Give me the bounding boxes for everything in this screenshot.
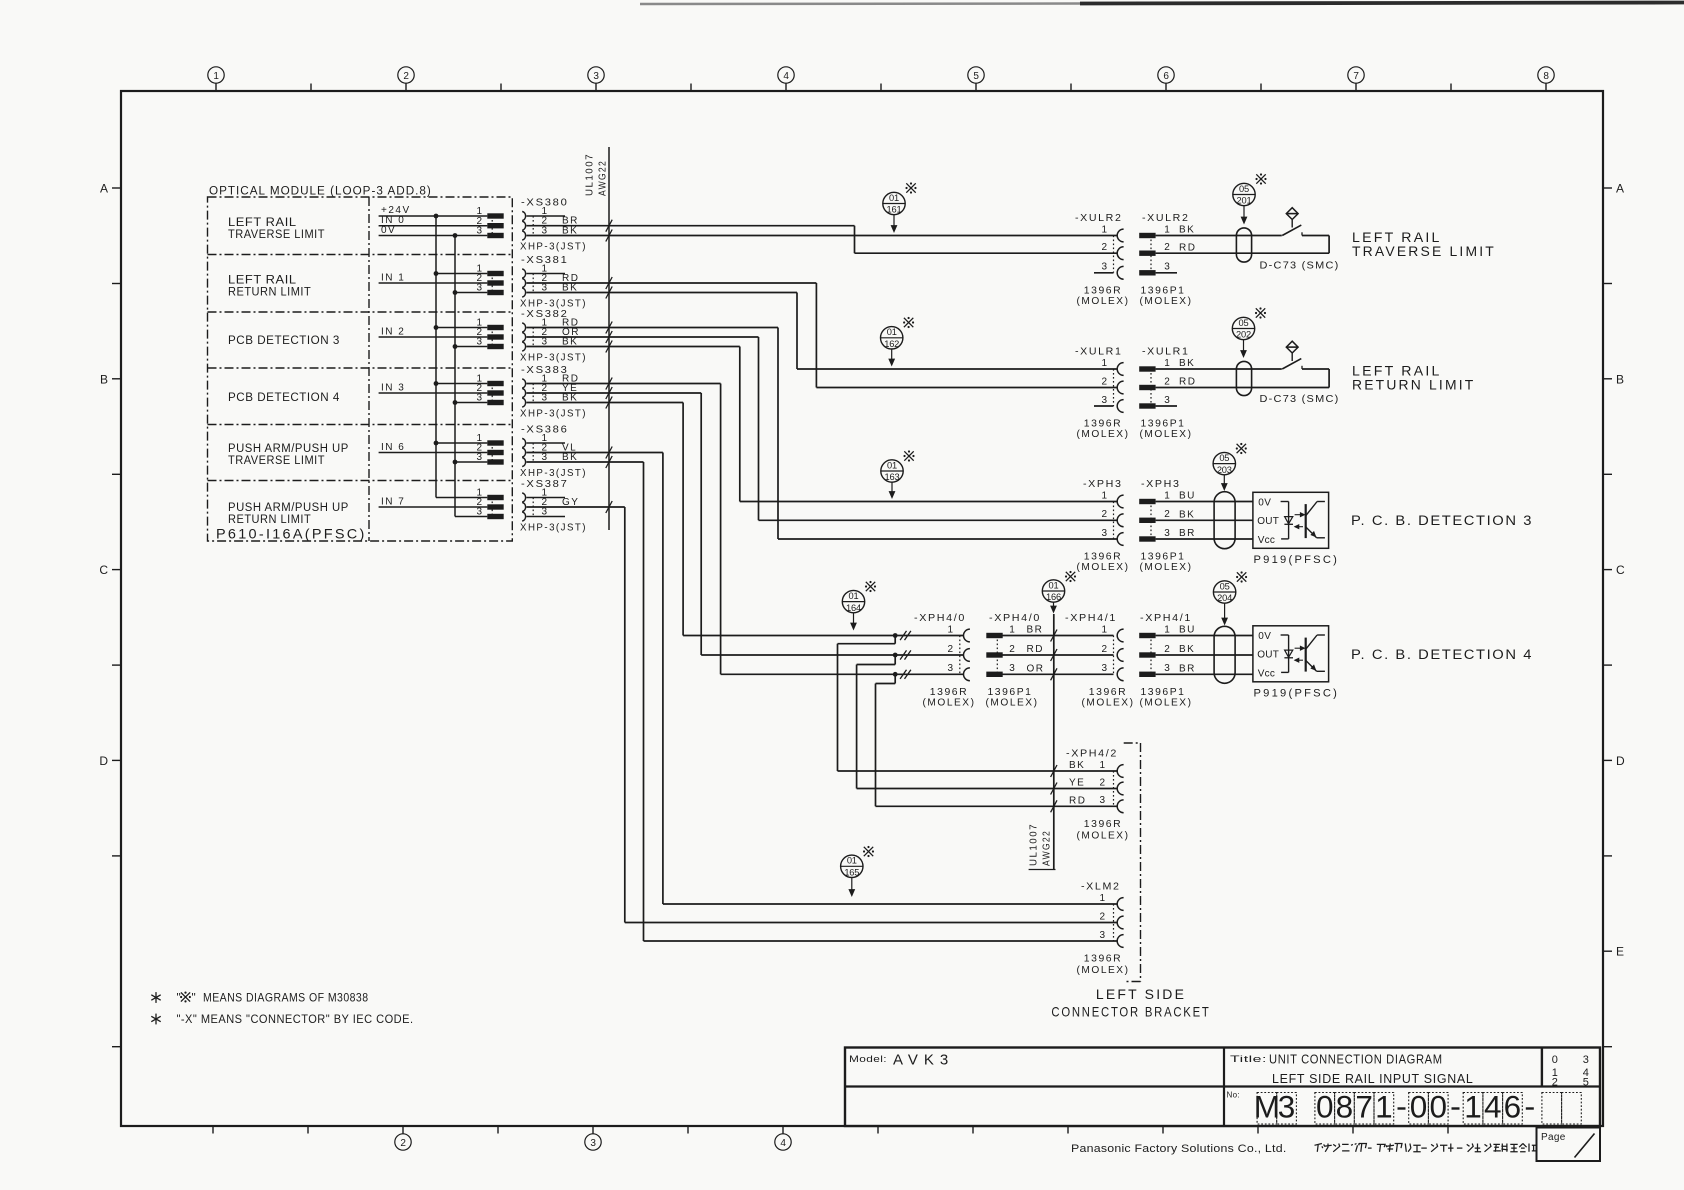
svg-text:3: 3 [1583,1054,1589,1066]
svg-text:LEFT SIDE: LEFT SIDE [1096,986,1186,1002]
svg-text:0V: 0V [1258,631,1271,642]
svg-text:BU: BU [1179,491,1196,502]
svg-text:1: 1 [1101,224,1107,235]
module section label PCB DETECTION 4 [228,390,340,404]
scan artifact line top edge [640,3,1684,5]
svg-text:201: 201 [1237,196,1252,206]
svg-text:2: 2 [1099,777,1105,788]
svg-text:-XPH4/1: -XPH4/1 [1065,612,1117,624]
svg-text:IN 2: IN 2 [381,326,405,337]
svg-text:(MOLEX): (MOLEX) [1140,562,1193,573]
reference circle 01/161 [883,192,905,232]
svg-text:": " [192,991,197,1005]
model field AVK3 [849,1052,954,1069]
svg-text:RD: RD [1069,796,1086,807]
svg-text:05: 05 [1219,453,1229,463]
company name japanese [1315,1144,1536,1152]
connector -XS386 XHP-3(JST) [476,424,587,480]
svg-text:3: 3 [541,506,547,517]
drawing number field [1227,1091,1240,1100]
reference circle 05/203 [1213,452,1235,490]
svg-text:01: 01 [887,327,897,337]
svg-text:05: 05 [1239,318,1249,328]
svg-text:05: 05 [1220,581,1230,591]
svg-text:(MOLEX): (MOLEX) [1077,562,1130,573]
svg-text:Page: Page [1541,1132,1566,1143]
svg-text:164: 164 [846,603,861,613]
svg-text:1: 1 [1464,1089,1482,1125]
svg-text:203: 203 [1217,465,1232,475]
reference circle 01/163 [881,460,903,498]
svg-text:P. C. B. DETECTION 4: P. C. B. DETECTION 4 [1351,647,1533,662]
svg-text:XHP-3(JST): XHP-3(JST) [520,242,587,253]
cable oval XPH3 [1214,492,1235,549]
wire XPH4/2-3 RD loop to XPH4/0-3 [876,674,1118,812]
svg-text:(MOLEX): (MOLEX) [986,697,1039,708]
stub XS381 pin1 [527,273,566,275]
svg-text:Panasonic Factory Solutions Co: Panasonic Factory Solutions Co., Ltd. [1071,1143,1287,1155]
svg-text:3: 3 [1099,795,1105,806]
connector -XULR2 1396P1 (MOLEX) [1139,212,1196,307]
svg-text:D: D [1616,754,1625,768]
svg-text:8: 8 [1543,71,1549,82]
pin1 feed wire XS386 [436,442,487,444]
svg-text:1: 1 [1099,760,1105,771]
junction dots XPH4/0 pins [893,633,898,677]
reference circle 05/202 [1232,317,1254,357]
reference mark for 05/202 [1255,307,1266,318]
dash separator 2 [1452,1107,1460,1109]
svg-text:RD: RD [1179,377,1196,388]
reference circle 05/204 [1213,581,1235,625]
label LEFT SIDE CONNECTOR BRACKET [1051,986,1210,1020]
wire XS383-3 BK to XPH4/0-1 [527,397,964,636]
svg-text:RD: RD [1027,644,1044,655]
connector -XULR1 1396P1 (MOLEX) [1139,346,1196,440]
svg-text:3: 3 [476,393,482,404]
svg-text:3: 3 [476,452,482,463]
bus +24V vertical [435,216,437,498]
svg-text:BK: BK [1179,225,1195,236]
svg-text:PCB DETECTION 4: PCB DETECTION 4 [228,390,340,404]
svg-text:PCB DETECTION 3: PCB DETECTION 3 [228,333,340,347]
svg-text:165: 165 [844,868,859,878]
svg-text:-XPH3: -XPH3 [1141,478,1181,490]
svg-text:P. C. B. DETECTION 3: P. C. B. DETECTION 3 [1351,513,1533,528]
svg-text:0: 0 [1552,1054,1558,1066]
wire XS383-2 YE to XPH4/0-2 [527,387,964,655]
svg-text:AWG22: AWG22 [1042,830,1053,866]
drawing number 00 [1409,1089,1448,1125]
svg-text:E: E [1616,945,1624,959]
drawing number 146 [1463,1089,1522,1125]
svg-text:3: 3 [476,283,482,294]
connector -XULR2 1396R (MOLEX) [1075,212,1130,307]
cable oval XULR1 [1236,361,1251,395]
svg-text:05: 05 [1239,184,1249,194]
svg-text:3: 3 [1164,663,1170,674]
svg-text:BR: BR [1179,528,1196,539]
section title LEFT RAIL RETURN LIMIT [1352,363,1475,393]
svg-text:2: 2 [1164,376,1170,387]
svg-text:3: 3 [1101,528,1107,539]
svg-text:204: 204 [1217,593,1232,603]
reference mark for 01/161 [905,182,916,193]
svg-text:3: 3 [1101,663,1107,674]
svg-text:3: 3 [476,226,482,237]
pin3 feed wire XS386 [455,461,487,463]
pin1 feed wire XS381 [436,273,487,275]
stub XS380 pin1 [527,215,566,217]
wire XS380-3 BK to XULR2-1 [527,230,1118,242]
svg-text:-XULR1: -XULR1 [1075,346,1123,358]
company name [1071,1143,1287,1155]
svg-text:1: 1 [1164,224,1170,235]
svg-text:162: 162 [884,339,899,349]
connector -XPH4/2 1396R (MOLEX) [1066,748,1130,842]
connector -XULR1 1396R (MOLEX) [1075,346,1130,440]
stub XS387 pin1 [527,497,566,499]
svg-text:2: 2 [403,71,409,82]
drawing frame border [121,91,1603,1126]
svg-text:3: 3 [1101,262,1107,273]
reference mark for 01/162 [903,317,914,328]
svg-text:A: A [100,182,108,196]
svg-text:-XPH4/0: -XPH4/0 [989,612,1041,624]
wire XS382-3 BK to XPH3-1 [527,341,1118,502]
svg-text:5: 5 [973,71,979,82]
svg-text:2: 2 [1101,644,1107,655]
svg-text:RETURN LIMIT: RETURN LIMIT [228,512,311,526]
svg-text:01: 01 [1049,580,1059,590]
stub XS387 pin3 [527,516,566,518]
svg-text:RETURN LIMIT: RETURN LIMIT [228,285,311,299]
svg-text:2: 2 [1101,376,1107,387]
reference circle 05/201 [1233,183,1255,223]
drawing number 0871 [1315,1089,1394,1125]
connector -XS383 XHP-3(JST) [476,364,587,420]
svg-text:XHP-3(JST): XHP-3(JST) [520,353,587,364]
svg-text:Vcc: Vcc [1258,668,1275,679]
optocoupler P919 PCB detection 3 [1253,492,1339,566]
svg-text:-XPH3: -XPH3 [1083,478,1123,490]
connector -XPH3 1396P1 (MOLEX) [1139,478,1196,573]
svg-text:3: 3 [1164,528,1170,539]
svg-text:1396R: 1396R [1084,419,1123,430]
svg-text:-XULR2: -XULR2 [1142,212,1190,224]
svg-text:3: 3 [1278,1089,1296,1125]
svg-text:1: 1 [213,71,219,82]
svg-text:3: 3 [947,663,953,674]
svg-text:01: 01 [849,591,859,601]
stub XS386 pin1 [527,442,566,444]
svg-text:-XPH4/1: -XPH4/1 [1140,612,1192,624]
svg-text:BR: BR [1179,664,1196,675]
section title P.C.B. DETECTION 4 [1351,647,1533,662]
optical module outline box [208,197,513,541]
connector -XPH4/0 1396R (MOLEX) [914,612,976,708]
svg-text:2: 2 [1009,644,1015,655]
svg-text:Title:: Title: [1230,1054,1267,1064]
connector -XPH4/1 1396R (MOLEX) [1065,612,1135,708]
svg-text:1: 1 [1164,358,1170,369]
svg-text:01: 01 [847,856,857,866]
svg-text:IN 7: IN 7 [381,496,405,507]
reference mark for 05/203 [1236,443,1247,454]
svg-text:C: C [99,563,108,577]
svg-text:A: A [1616,182,1624,196]
twisted pair marks XPH4/0 [900,631,911,679]
revision digits box [1552,1054,1589,1088]
svg-text:LEFT SIDE RAIL INPUT SIGNAL: LEFT SIDE RAIL INPUT SIGNAL [1272,1072,1474,1086]
svg-text:4: 4 [1484,1089,1502,1125]
pin3 feed wire XS383 [455,402,487,404]
row reference letters right [1603,182,1625,1047]
signal IN 6 [379,442,488,453]
svg-text:CONNECTOR BRACKET: CONNECTOR BRACKET [1051,1004,1210,1020]
svg-text:1: 1 [1164,490,1170,501]
svg-text:OUT: OUT [1257,650,1279,661]
svg-text:No:: No: [1227,1091,1240,1100]
svg-text:1: 1 [1009,624,1015,635]
limit switch D-C73 left rail traverse [1156,208,1340,272]
wire XS386-3 BK to XLM2-3 [527,456,1118,941]
svg-text:1396P1: 1396P1 [988,687,1033,698]
connector -XPH4/0 1396P1 (MOLEX) [986,612,1045,708]
svg-text:2: 2 [1101,242,1107,253]
optical module title [209,184,432,198]
cable UL1007 AWG22 marker line 2 [1029,614,1056,870]
svg-text:XHP-3(JST): XHP-3(JST) [520,409,587,420]
wires XPH4/1 to sensor [1156,636,1253,675]
svg-text:1396P1: 1396P1 [1141,687,1186,698]
svg-text:1396R: 1396R [930,687,969,698]
reference mark for 01/164 [865,581,876,592]
reference circle 01/165 [841,855,863,896]
wire XPH4/2-1 BK loop to XPH4/0-1 [838,636,1118,778]
reference mark for 01/166 [1065,571,1076,582]
svg-text:161: 161 [887,205,902,215]
reference mark for 01/163 [903,450,914,461]
svg-text:166: 166 [1046,592,1061,602]
svg-text:(MOLEX): (MOLEX) [923,697,976,708]
svg-text:2: 2 [1164,242,1170,253]
cable oval XULR2 [1236,228,1251,262]
svg-text:"-X" MEANS "CONNECTOR" BY IEC: "-X" MEANS "CONNECTOR" BY IEC CODE. [177,1012,414,1026]
column reference numbers bottom [213,1126,1543,1150]
svg-text:3: 3 [1101,395,1107,406]
svg-text:XHP-3(JST): XHP-3(JST) [520,523,587,534]
module section label PUSH ARM/PUSH UP TRAVERSE LIMIT [228,441,349,467]
pin3 feed wire XS381 [455,292,487,294]
svg-text:2: 2 [1552,1076,1558,1088]
svg-text:1396R: 1396R [1084,954,1123,965]
svg-text:(MOLEX): (MOLEX) [1140,429,1193,440]
module section label PCB DETECTION 3 [228,333,340,347]
svg-text:P919(PFSC): P919(PFSC) [1254,688,1340,700]
svg-text:202: 202 [1236,330,1251,340]
optocoupler P919 PCB detection 4 [1253,626,1339,700]
signal IN 1 [379,272,488,283]
wire XS386-2 VL to XLM2-1 [527,447,1118,905]
svg-text:D-C73 (SMC): D-C73 (SMC) [1260,393,1340,405]
svg-text:3: 3 [476,507,482,518]
svg-text:8: 8 [1336,1089,1354,1125]
svg-text:OUT: OUT [1257,516,1279,527]
svg-text:BK: BK [1069,760,1085,771]
svg-text:UNIT CONNECTION DIAGRAM: UNIT CONNECTION DIAGRAM [1269,1053,1443,1067]
svg-text:6: 6 [1504,1089,1522,1125]
note diagrams of M30838 [151,991,368,1005]
signal +24V [379,205,488,216]
page box [1537,1128,1601,1162]
limit switch D-C73 left rail return [1156,341,1340,405]
pin3 feed wire XS387 [455,516,487,518]
svg-text:UL1007: UL1007 [1029,823,1040,866]
signal IN 3 [379,382,488,393]
svg-text:(MOLEX): (MOLEX) [1077,830,1130,841]
svg-text:-XPH4/0: -XPH4/0 [914,612,966,624]
svg-text:1: 1 [1101,490,1107,501]
svg-text:IN 3: IN 3 [381,382,405,393]
svg-text:MEANS DIAGRAMS OF M30838: MEANS DIAGRAMS OF M30838 [203,991,369,1005]
row reference letters left [99,182,121,1047]
bus 0V vertical [454,236,456,517]
svg-text:TRAVERSE LIMIT: TRAVERSE LIMIT [228,453,325,467]
svg-text:(MOLEX): (MOLEX) [1140,296,1193,307]
wires XPH3 to sensor [1156,502,1253,540]
svg-text:163: 163 [885,472,900,482]
module section label LEFT RAIL RETURN LIMIT [228,273,311,299]
svg-text:P610-I16A(PFSC): P610-I16A(PFSC) [216,526,367,542]
pin1 feed wire XS387 [436,497,487,499]
pin1 feed wire XS382 [436,327,487,329]
module part number P610-I16A(PFSC) [216,526,367,542]
left side connector bracket outline [1124,743,1141,982]
svg-text:1: 1 [1101,358,1107,369]
svg-text:BK: BK [1179,644,1195,655]
svg-text:2: 2 [1164,644,1170,655]
svg-text:3: 3 [1164,395,1170,406]
svg-text:4: 4 [783,71,789,82]
svg-text:AWG22: AWG22 [598,160,609,196]
cable oval XPH4 [1214,626,1235,683]
svg-text:1396R: 1396R [1084,285,1123,296]
empty revision cells [1542,1093,1581,1125]
reference circle 01/162 [881,327,903,366]
svg-text:(MOLEX): (MOLEX) [1077,429,1130,440]
svg-text:D: D [99,754,108,768]
svg-text:TRAVERSE LIMIT: TRAVERSE LIMIT [1352,243,1496,259]
svg-text:6: 6 [1163,71,1169,82]
svg-text:3: 3 [1099,930,1105,941]
svg-text:3: 3 [590,1138,596,1149]
svg-text:2: 2 [1101,509,1107,520]
wire XS383-1 RD to XPH4/0-3 [527,378,964,675]
svg-text:1396R: 1396R [1089,687,1128,698]
svg-text:RETURN LIMIT: RETURN LIMIT [1352,377,1475,393]
svg-text:-XULR1: -XULR1 [1142,346,1190,358]
connector -XS387 XHP-3(JST) [476,478,587,534]
svg-text:0: 0 [1429,1089,1447,1125]
wire XPH4/2-2 YE loop to XPH4/0-2 [857,655,1118,795]
svg-text:1: 1 [1099,893,1105,904]
svg-text:IN 1: IN 1 [381,272,405,283]
svg-text:1: 1 [1101,624,1107,635]
svg-text:Model:: Model: [849,1054,887,1064]
svg-text:(MOLEX): (MOLEX) [1077,965,1130,976]
section title P.C.B. DETECTION 3 [1351,513,1533,528]
svg-text:0V: 0V [1258,497,1271,508]
wires XPH4/0 to XPH4/1 [1002,630,1114,681]
reference mark for 01/165 [863,846,874,857]
module section label PUSH ARM/PUSH UP RETURN LIMIT [228,500,349,526]
svg-text:2: 2 [400,1138,406,1149]
svg-text:UL1007: UL1007 [585,153,596,196]
svg-text:2: 2 [1099,911,1105,922]
svg-text:1396R: 1396R [1084,819,1123,830]
svg-text:3: 3 [1164,262,1170,273]
connector -XS381 XHP-3(JST) [476,254,587,310]
svg-text:1: 1 [1375,1089,1393,1125]
wire XS381-3 BK to XULR1-1 [527,287,1118,370]
svg-text:Vcc: Vcc [1258,535,1275,546]
svg-text:OR: OR [1027,664,1045,675]
svg-text:4: 4 [780,1138,786,1149]
note -X means connector [151,1012,413,1026]
wire XS387-2 GY to XLM2-2 [527,501,1118,923]
svg-text:B: B [1616,372,1624,386]
svg-text:2: 2 [1164,509,1170,520]
svg-text:1396P1: 1396P1 [1141,419,1186,430]
stub XS382 pin1 none [0,0,1,1]
svg-text:01: 01 [889,193,899,203]
drawing number M3 [1254,1089,1297,1125]
cable UL1007 AWG22 marker line [585,147,610,530]
connector -XLM2 1396R (MOLEX) [1077,881,1130,976]
svg-text:C: C [1616,563,1625,577]
svg-text:(MOLEX): (MOLEX) [1077,296,1130,307]
wire XS380-2 BR to XULR2-2 [527,220,1118,254]
svg-text:(MOLEX): (MOLEX) [1140,697,1193,708]
svg-text:TRAVERSE LIMIT: TRAVERSE LIMIT [228,227,325,241]
svg-text:2: 2 [947,644,953,655]
svg-text:RD: RD [1179,242,1196,253]
connector -XPH3 1396R (MOLEX) [1077,478,1130,573]
signal IN 7 [379,496,488,507]
wire XS381-2 RD to XULR1-2 [527,277,1118,388]
svg-text:BK: BK [1179,358,1195,369]
svg-text:BK: BK [1179,510,1195,521]
dash separator 3 [1526,1107,1534,1109]
svg-text:3: 3 [593,71,599,82]
connector -XS380 XHP-3(JST) [476,197,587,253]
svg-text:YE: YE [1069,778,1085,789]
svg-text:(MOLEX): (MOLEX) [1082,697,1135,708]
svg-text:5: 5 [1583,1076,1589,1088]
svg-text:BR: BR [1027,625,1044,636]
svg-text:-XLM2: -XLM2 [1081,881,1121,893]
section title LEFT RAIL TRAVERSE LIMIT [1352,229,1496,259]
reference mark for 05/201 [1255,173,1266,184]
pin3 feed wire XS382 [455,346,487,348]
reference circle 01/166 [1042,580,1064,613]
svg-text:3: 3 [476,337,482,348]
reference circle 01/164 [842,590,864,629]
connector -XS382 XHP-3(JST) [476,308,587,364]
wire XS382-2 OR to XPH3-2 [527,331,1118,520]
svg-text:BU: BU [1179,625,1196,636]
